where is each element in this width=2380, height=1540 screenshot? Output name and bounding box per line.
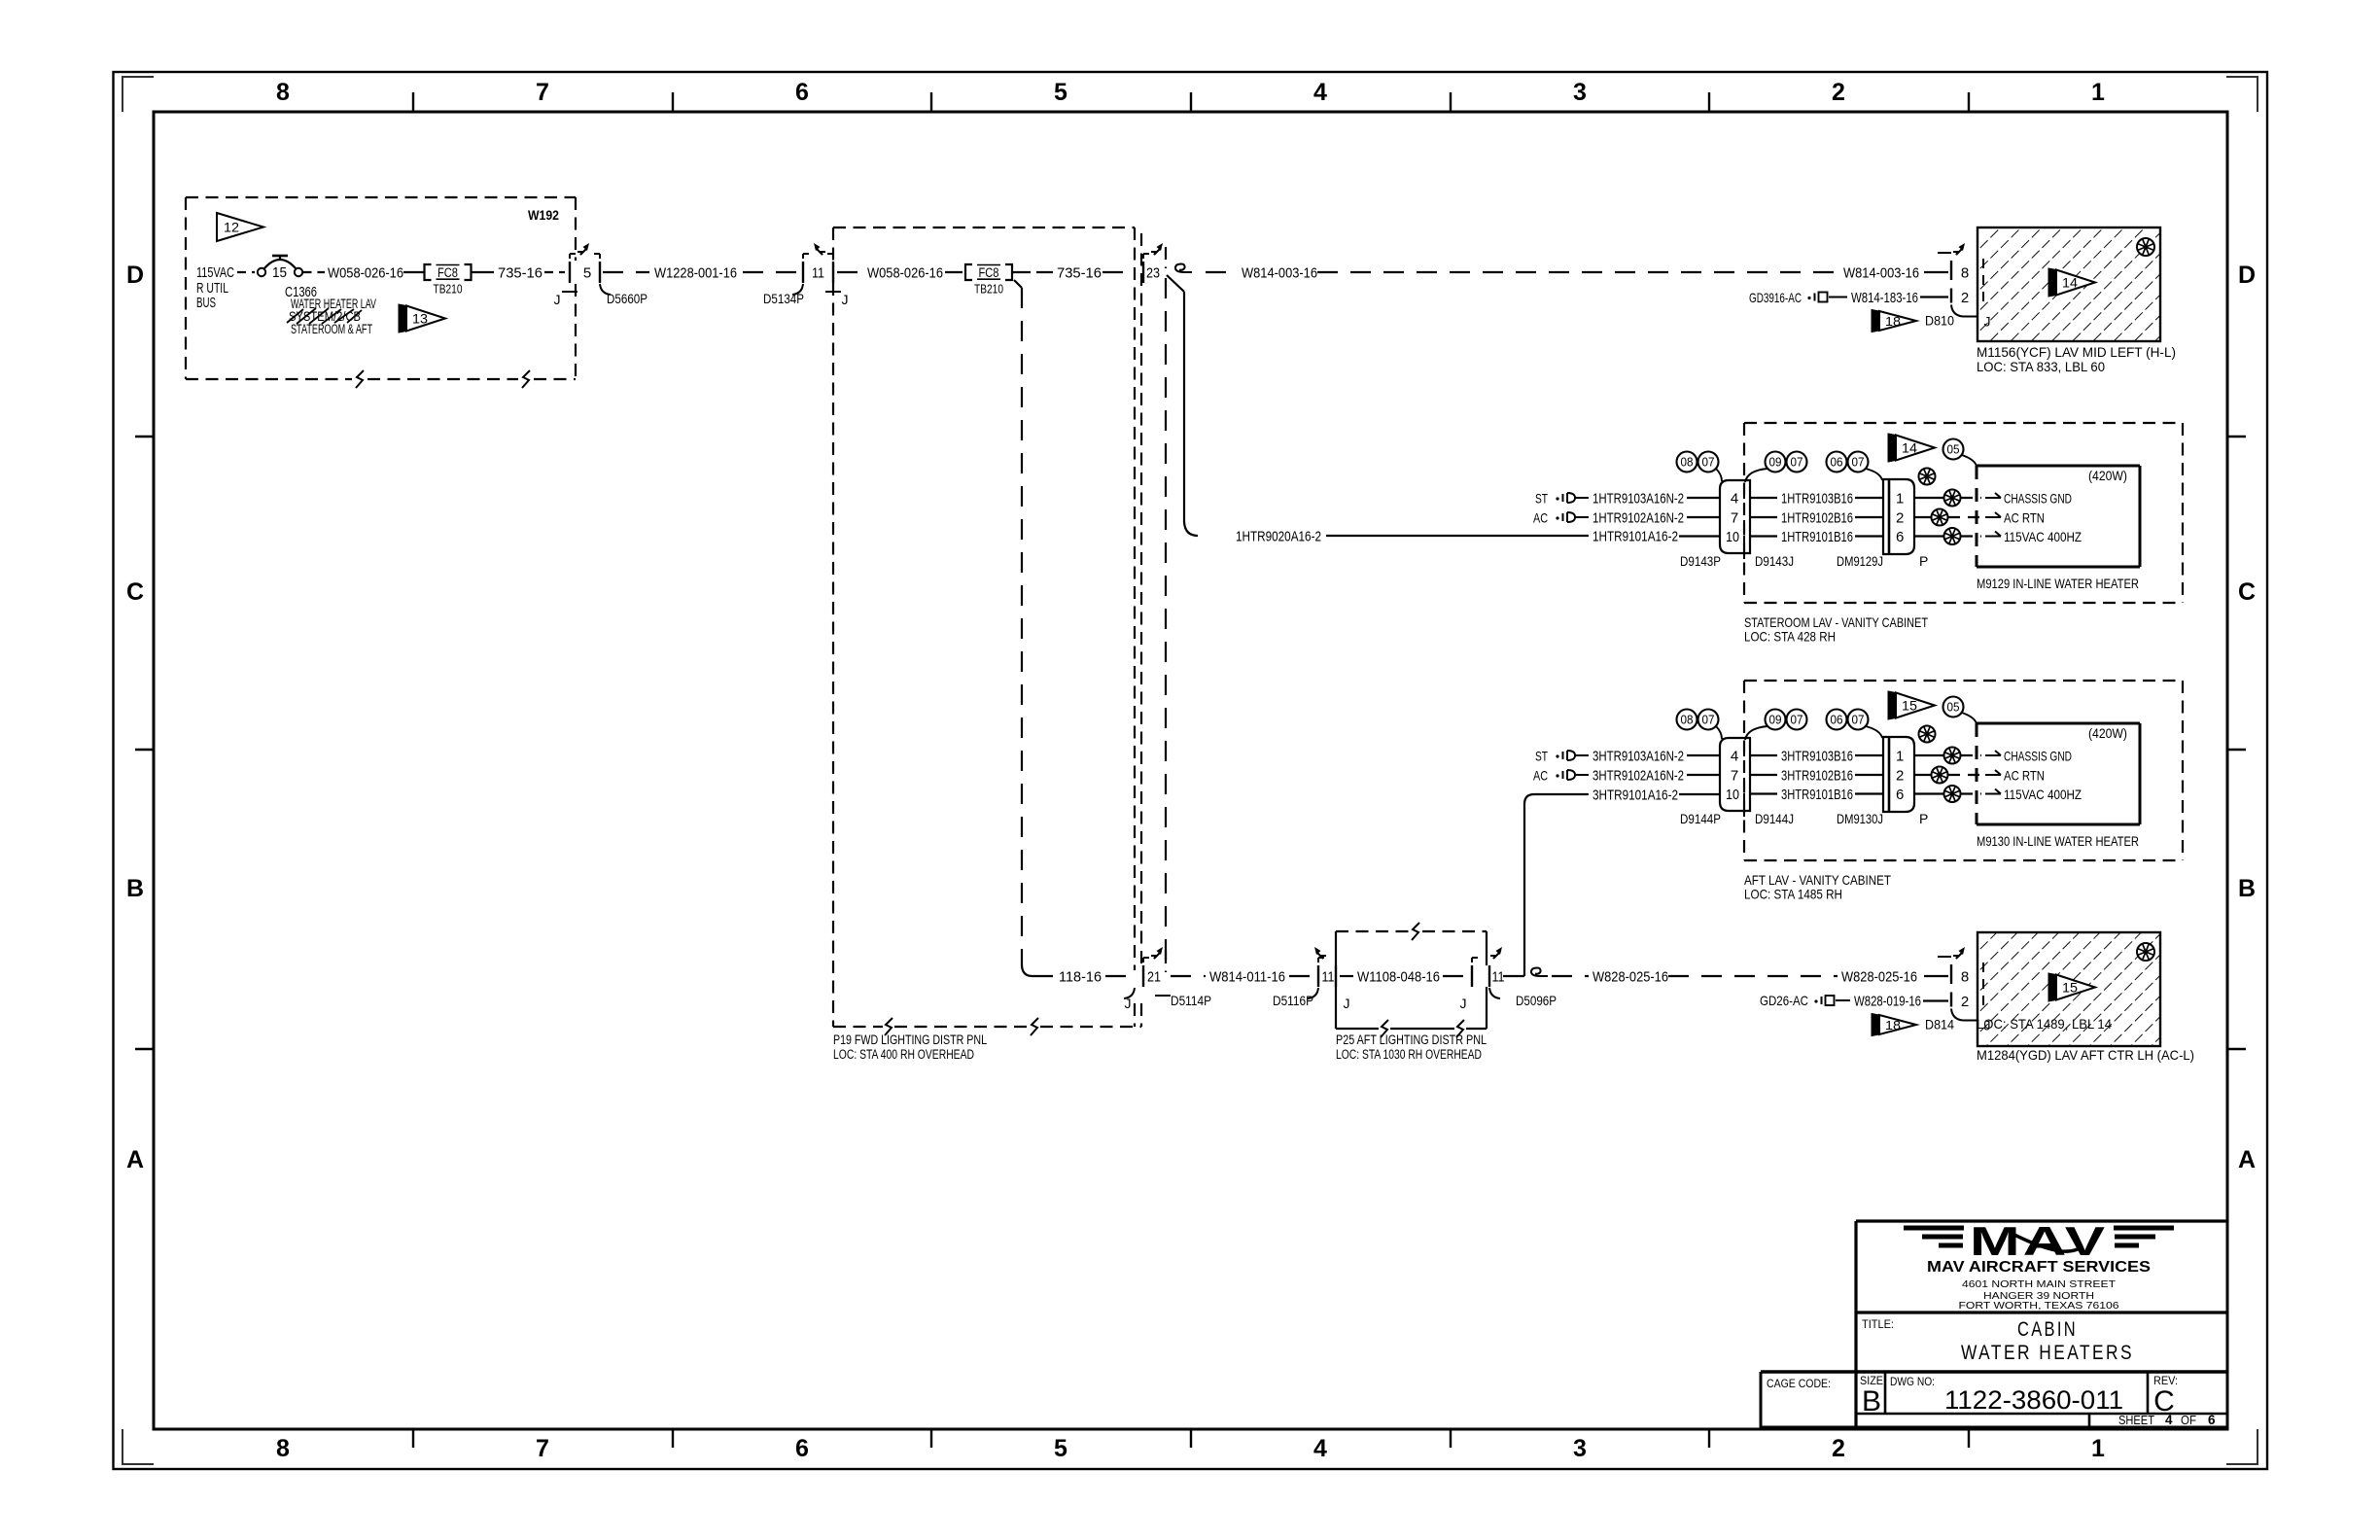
vanity cabinet dashed box M9129 [1744, 422, 2183, 424]
break on P37 bottom edge 2 [522, 370, 530, 388]
svg-text:3HTR9102A16N-2: 3HTR9102A16N-2 [1592, 767, 1684, 784]
connector D810 bracket [1950, 261, 1952, 280]
svg-text:6: 6 [1896, 787, 1904, 803]
svg-text:LOC: STA 1030 RH OVERHEAD: LOC: STA 1030 RH OVERHEAD [1336, 1047, 1482, 1062]
svg-text:1HTR9020A16-2: 1HTR9020A16-2 [1236, 528, 1321, 544]
svg-text:07: 07 [1852, 456, 1865, 470]
splice on pin 1 wire [1914, 497, 1943, 499]
wire 1HTR9102B16 [1750, 516, 1777, 518]
svg-text:1: 1 [1896, 491, 1904, 507]
svg-text:J: J [842, 292, 849, 307]
svg-text:4: 4 [1313, 1435, 1327, 1462]
svg-text:D: D [2238, 262, 2256, 289]
terminal CHASSIS GND [1985, 497, 2001, 499]
svg-text:09: 09 [1769, 714, 1782, 727]
svg-text:1: 1 [2091, 1435, 2105, 1462]
callout circles 09 07 over D9143J [1766, 452, 1786, 472]
lamp symbol [2137, 943, 2154, 961]
svg-text:06: 06 [1831, 714, 1843, 727]
wire label 735-16 [472, 271, 494, 273]
svg-text:1HTR9103A16N-2: 1HTR9103A16N-2 [1592, 490, 1684, 507]
svg-text:D5134P: D5134P [763, 291, 804, 306]
wire pin 11 to junction [1503, 975, 1524, 977]
svg-text:118-16: 118-16 [1059, 968, 1102, 985]
splice on pin 6 wire [1914, 792, 1943, 794]
svg-text:J: J [1460, 996, 1467, 1011]
splice on pin 1 wire [1914, 754, 1943, 756]
callout circles 09 07 over D9144J [1766, 710, 1786, 730]
wire 3HTR9102B16 [1750, 774, 1777, 776]
wire 118-16 from FC8 drop [1014, 280, 1022, 288]
free splice [1919, 726, 1936, 743]
svg-text:8: 8 [1961, 969, 1969, 986]
svg-text:W814-011-16: W814-011-16 [1209, 968, 1285, 985]
svg-text:W828-025-16: W828-025-16 [1841, 968, 1917, 985]
wire W058-026-16 inside P19 [837, 271, 863, 273]
svg-text:C: C [126, 578, 144, 606]
svg-text:GD26-AC: GD26-AC [1760, 993, 1808, 1008]
svg-text:J: J [1125, 996, 1132, 1011]
svg-text:13: 13 [412, 312, 428, 327]
svg-text:1122-3860-011: 1122-3860-011 [1944, 1385, 2123, 1415]
splice on pin 2 wire [1914, 774, 1931, 776]
connector D5134P pin 11 [802, 262, 804, 283]
svg-text:M1156(YCF) LAV MID LEFT (H-L: M1156(YCF) LAV MID LEFT (H-L) [1977, 344, 2176, 360]
flag 15 in lav box [2048, 973, 2056, 1001]
svg-text:115VAC 400HZ: 115VAC 400HZ [2004, 529, 2082, 544]
svg-text:D5660P: D5660P [607, 291, 647, 306]
callout circles 08 07 over D9143P [1677, 452, 1697, 472]
svg-text:D9143P: D9143P [1680, 553, 1721, 569]
svg-text:W1108-048-16: W1108-048-16 [1357, 968, 1440, 985]
svg-text:15: 15 [2062, 981, 2078, 996]
svg-text:AC RTN: AC RTN [2004, 509, 2045, 525]
svg-text:07: 07 [1791, 714, 1803, 727]
break on P25 bottom edge 2 [1456, 1020, 1464, 1037]
svg-text:10: 10 [1726, 529, 1739, 545]
svg-text:TITLE:: TITLE: [1862, 1317, 1894, 1331]
wire W828-025-16 bottom run [1552, 975, 1589, 977]
connector D5114 pin 23 [1142, 262, 1144, 283]
connector DM9129J/P [1883, 479, 1914, 554]
terminal 115VAC 400HZ [1985, 536, 2001, 538]
svg-text:W058-026-16: W058-026-16 [867, 264, 943, 281]
svg-text:AC: AC [1533, 767, 1548, 783]
svg-text:08: 08 [1681, 456, 1694, 470]
lamp symbol [2137, 238, 2154, 256]
svg-text:08: 08 [1681, 714, 1694, 727]
svg-text:10: 10 [1726, 787, 1739, 803]
flag 15 over heater [1888, 691, 1896, 719]
zone ticks right [2227, 436, 2246, 437]
svg-text:4601 NORTH MAIN STREET: 4601 NORTH MAIN STREET [1962, 1278, 2117, 1290]
wire 1HTR9101B16 [1750, 535, 1777, 537]
svg-text:SHEET: SHEET [2118, 1414, 2154, 1427]
callout circle 05 [1943, 439, 1964, 460]
svg-text:LOC: STA 1485 RH: LOC: STA 1485 RH [1744, 887, 1842, 902]
svg-text:3HTR9103B16: 3HTR9103B16 [1781, 748, 1853, 764]
wire label 735-16 no.2 [1012, 271, 1031, 273]
terminal FC8 TB210 no.2 [965, 264, 972, 280]
logo speed lines right [2114, 1226, 2174, 1231]
svg-text:2: 2 [1896, 768, 1904, 785]
svg-text:D9144J: D9144J [1755, 811, 1794, 826]
water heater box M9129 [1977, 465, 2140, 468]
wire W1108-048-16 [1340, 975, 1353, 977]
svg-text:W828-025-16: W828-025-16 [1592, 968, 1668, 985]
connector D9143P/D9143J [1720, 480, 1750, 553]
svg-text:7: 7 [1731, 510, 1738, 527]
callout circles 06 07 over DM9129J [1827, 452, 1847, 472]
svg-text:D810: D810 [1925, 313, 1954, 329]
svg-text:LOC: STA 833, LBL 60: LOC: STA 833, LBL 60 [1977, 359, 2105, 374]
panel P37 dashed box [186, 196, 576, 198]
svg-text:FORT WORTH, TEXAS 76106: FORT WORTH, TEXAS 76106 [1959, 1300, 2119, 1312]
svg-text:6: 6 [1896, 529, 1904, 545]
svg-text:P25 AFT LIGHTING DISTR PNL: P25 AFT LIGHTING DISTR PNL [1336, 1032, 1487, 1047]
panel P19 dashed box [833, 227, 1135, 228]
wire W814-011-16 [1171, 975, 1206, 977]
wire bus to breaker [237, 271, 255, 273]
svg-text:14: 14 [2062, 276, 2079, 291]
flag 14 in lav box [2048, 268, 2056, 297]
svg-text:A: A [126, 1146, 144, 1173]
svg-text:CABIN: CABIN [2017, 1318, 2078, 1341]
lav unit hatched box M1284(YGD) [1977, 932, 2160, 1046]
svg-text:M9130 IN-LINE WATER HEATER: M9130 IN-LINE WATER HEATER [1977, 833, 2139, 849]
break on P37 bottom edge [356, 370, 364, 388]
svg-text:MAV AIRCRAFT SERVICES: MAV AIRCRAFT SERVICES [1927, 1259, 2151, 1276]
svg-text:WATER HEATERS: WATER HEATERS [1961, 1342, 2134, 1364]
zone ticks top [412, 92, 414, 111]
svg-text:11: 11 [812, 265, 824, 282]
callout circles 08 07 over D9144P [1677, 710, 1697, 730]
svg-text:3HTR9101A16-2: 3HTR9101A16-2 [1592, 787, 1678, 803]
free splice [1919, 469, 1936, 485]
svg-text:1: 1 [2091, 79, 2105, 106]
svg-text:P: P [1919, 553, 1928, 569]
svg-text:D5116P: D5116P [1273, 993, 1313, 1008]
wire 3HTR9101B16 [1750, 792, 1777, 794]
svg-text:7: 7 [1731, 768, 1738, 785]
svg-text:4: 4 [1731, 749, 1738, 765]
svg-text:M1284(YGD) LAV AFT CTR LH (A: M1284(YGD) LAV AFT CTR LH (AC-L) [1977, 1047, 2194, 1063]
svg-text:D5096P: D5096P [1516, 993, 1557, 1008]
svg-text:15: 15 [272, 264, 287, 281]
water heater box M9130 [1977, 722, 2140, 725]
svg-text:1HTR9102A16N-2: 1HTR9102A16N-2 [1592, 509, 1684, 526]
terminal FC8 TB210 no.1 [425, 264, 432, 280]
svg-text:23: 23 [1146, 265, 1160, 282]
svg-text:3: 3 [1573, 79, 1587, 106]
terminal AC RTN [1985, 516, 2001, 518]
svg-text:W192: W192 [528, 207, 559, 223]
flag 12 [217, 213, 263, 241]
wire breaker to W058-026-16 [303, 271, 326, 273]
svg-text:OF: OF [2181, 1414, 2196, 1427]
break on P19 bottom edge 2 [1031, 1018, 1038, 1035]
lav unit hatched box M1156(YCF) [1977, 227, 2160, 341]
svg-text:11: 11 [1322, 969, 1335, 986]
svg-text:D9143J: D9143J [1755, 553, 1794, 569]
connector D5114 pin 21 [1142, 965, 1144, 987]
wire to FC8 [403, 271, 424, 273]
connector D9144P/D9144J [1720, 738, 1750, 811]
svg-text:W1228-001-16: W1228-001-16 [654, 264, 737, 281]
vanity cabinet dashed box M9130 [1744, 680, 2183, 682]
splice on pin 2 wire [1914, 516, 1931, 518]
svg-text:3HTR9102B16: 3HTR9102B16 [1781, 767, 1853, 784]
svg-text:LOC: STA 400 RH OVERHEAD: LOC: STA 400 RH OVERHEAD [833, 1047, 974, 1062]
terminal CHASSIS GND [1985, 754, 2001, 756]
callout circle 05 [1943, 697, 1964, 717]
svg-text:115VAC 400HZ: 115VAC 400HZ [2004, 787, 2082, 802]
svg-text:07: 07 [1791, 456, 1803, 470]
svg-text:4: 4 [1313, 79, 1327, 106]
svg-text:2: 2 [1896, 510, 1904, 527]
svg-text:7: 7 [536, 79, 549, 106]
svg-text:07: 07 [1702, 714, 1715, 727]
svg-text:GD3916-AC: GD3916-AC [1749, 290, 1802, 305]
svg-text:LOC: STA 1489, LBL 14: LOC: STA 1489, LBL 14 [1977, 1016, 2112, 1032]
svg-text:D9144P: D9144P [1680, 811, 1721, 826]
svg-text:06: 06 [1831, 456, 1843, 470]
squiggle after pin 23 [1175, 264, 1192, 273]
break on P25 top edge [1412, 923, 1419, 940]
svg-text:B: B [1862, 1385, 1881, 1417]
svg-text:P: P [1919, 811, 1928, 826]
flag 14 over heater [1888, 434, 1896, 462]
svg-text:2: 2 [1832, 1435, 1845, 1462]
svg-text:6: 6 [795, 79, 809, 106]
svg-text:AC: AC [1533, 509, 1548, 525]
break on P25 bottom edge [1381, 1020, 1388, 1037]
svg-text:AC RTN: AC RTN [2004, 767, 2045, 783]
svg-text:4: 4 [1731, 491, 1738, 507]
svg-text:6: 6 [795, 1435, 809, 1462]
svg-text:D: D [126, 262, 144, 289]
svg-text:8: 8 [1961, 265, 1969, 282]
svg-text:P19 FWD LIGHTING DISTR PNL: P19 FWD LIGHTING DISTR PNL [833, 1032, 987, 1047]
svg-text:07: 07 [1702, 456, 1715, 470]
title block outline [1856, 1219, 2227, 1222]
svg-text:115VAC: 115VAC [196, 264, 234, 281]
svg-text:1: 1 [1896, 749, 1904, 765]
wire pin23 to squiggle drop [1167, 275, 1184, 292]
svg-text:C: C [2238, 578, 2256, 606]
svg-text:(420W): (420W) [2088, 725, 2127, 741]
svg-text:J: J [554, 292, 561, 307]
terminal 115VAC 400HZ [1985, 793, 2001, 795]
svg-text:J: J [1344, 996, 1350, 1011]
svg-text:15: 15 [1902, 699, 1917, 714]
svg-text:(420W): (420W) [2088, 468, 2127, 483]
svg-text:STATEROOM & AFT: STATEROOM & AFT [291, 322, 372, 336]
squiggle after D5096P [1531, 968, 1548, 977]
svg-text:8: 8 [276, 1435, 290, 1462]
svg-text:7: 7 [536, 1435, 549, 1462]
zone ticks bottom [412, 1429, 414, 1448]
svg-text:07: 07 [1852, 714, 1865, 727]
svg-text:B: B [2238, 875, 2256, 902]
svg-text:735-16: 735-16 [498, 264, 542, 281]
connector DM9130J/P [1883, 737, 1914, 812]
svg-text:LOC: STA 428 RH: LOC: STA 428 RH [1744, 629, 1836, 645]
svg-text:2: 2 [1832, 79, 1845, 106]
svg-text:09: 09 [1769, 456, 1782, 470]
svg-text:18: 18 [1885, 315, 1901, 329]
svg-text:DM9130J: DM9130J [1837, 811, 1883, 826]
svg-text:TB210: TB210 [974, 283, 1003, 297]
svg-text:05: 05 [1947, 443, 1960, 457]
svg-text:3HTR9101B16: 3HTR9101B16 [1781, 787, 1853, 803]
flag 18 with D810 [1872, 310, 1879, 332]
wire W814-003-16 top run [1206, 271, 1238, 273]
svg-text:CHASSIS GND: CHASSIS GND [2004, 490, 2072, 506]
svg-text:2: 2 [1961, 994, 1969, 1010]
svg-text:W814-183-16: W814-183-16 [1851, 290, 1918, 306]
svg-text:CHASSIS GND: CHASSIS GND [2004, 748, 2072, 763]
callout circles 06 07 over DM9130J [1827, 710, 1847, 730]
svg-text:6: 6 [2208, 1413, 2216, 1427]
corner trim marks [122, 77, 154, 112]
wire W1228-001-16 [603, 271, 649, 273]
wire to connector pin 5 [544, 271, 565, 273]
svg-text:1HTR9101B16: 1HTR9101B16 [1781, 529, 1853, 545]
splice on pin 6 wire [1914, 535, 1943, 537]
svg-text:21: 21 [1147, 969, 1161, 986]
svg-text:12: 12 [224, 221, 239, 235]
panel P25 dashed box [1336, 930, 1409, 932]
break on P19 bottom edge [885, 1018, 892, 1035]
svg-text:4: 4 [2165, 1413, 2173, 1427]
svg-text:MAV: MAV [1970, 1218, 2108, 1264]
svg-text:11: 11 [1492, 969, 1505, 986]
svg-text:05: 05 [1947, 701, 1960, 715]
svg-text:W058-026-16: W058-026-16 [328, 264, 403, 281]
svg-text:D5114P: D5114P [1171, 993, 1211, 1008]
svg-text:B: B [126, 875, 144, 902]
svg-text:DWG NO:: DWG NO: [1890, 1375, 1935, 1388]
svg-text:3HTR9103A16N-2: 3HTR9103A16N-2 [1592, 748, 1684, 764]
svg-text:14: 14 [1902, 441, 1918, 456]
svg-text:W814-003-16: W814-003-16 [1843, 264, 1919, 281]
svg-text:CAGE CODE:: CAGE CODE: [1767, 1377, 1831, 1390]
svg-text:18: 18 [1885, 1019, 1901, 1032]
svg-text:8: 8 [276, 79, 290, 106]
svg-text:A: A [2238, 1146, 2256, 1173]
svg-text:M9129 IN-LINE WATER HEATER: M9129 IN-LINE WATER HEATER [1977, 576, 2139, 591]
svg-text:1HTR9103B16: 1HTR9103B16 [1781, 490, 1853, 507]
feeder 3HTR9101A16-2 riser [1523, 804, 1525, 976]
connector D5116P pin 11 [1317, 965, 1319, 987]
connector D5660P pin 5 [569, 262, 571, 283]
svg-text:W814-003-16: W814-003-16 [1242, 264, 1317, 281]
svg-text:W828-019-16: W828-019-16 [1854, 993, 1921, 1009]
svg-text:FC8: FC8 [979, 265, 999, 280]
wire 1HTR9103B16 [1750, 497, 1777, 499]
svg-text:1HTR9102B16: 1HTR9102B16 [1781, 509, 1853, 526]
zone ticks left [135, 436, 154, 437]
wire 3HTR9103B16 [1750, 754, 1777, 756]
svg-text:2: 2 [1961, 290, 1969, 306]
svg-text:ST: ST [1535, 748, 1548, 763]
terminal AC RTN [1985, 774, 2001, 776]
svg-text:BUS: BUS [196, 295, 216, 311]
svg-text:5: 5 [1054, 1435, 1067, 1462]
svg-text:5: 5 [1054, 79, 1067, 106]
svg-text:D814: D814 [1925, 1017, 1954, 1032]
flag 13 [399, 304, 406, 332]
circuit breaker C1366 (15A) [258, 268, 265, 276]
svg-text:3: 3 [1573, 1435, 1587, 1462]
flag 18 with D814 [1872, 1014, 1879, 1036]
svg-text:DM9129J: DM9129J [1837, 553, 1883, 569]
svg-text:5: 5 [583, 265, 591, 282]
connector D5096P pin 11 [1471, 965, 1473, 987]
svg-text:1HTR9101A16-2: 1HTR9101A16-2 [1592, 528, 1678, 544]
svg-text:735-16: 735-16 [1057, 264, 1102, 281]
logo speed lines left [1904, 1226, 1964, 1231]
connector D814 bracket [1950, 964, 1952, 984]
svg-text:TB210: TB210 [434, 283, 463, 297]
svg-text:FC8: FC8 [437, 265, 458, 280]
svg-text:ST: ST [1535, 490, 1548, 506]
